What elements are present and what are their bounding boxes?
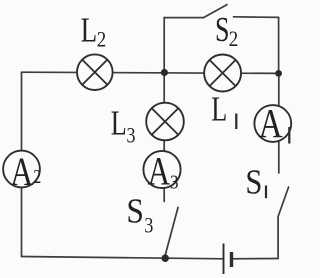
svg-text:2: 2 — [97, 27, 107, 52]
wire: bottom horizontal (right of battery) — [232, 258, 279, 260]
lamp L2 — [77, 54, 113, 90]
wire: junction up to top rail — [163, 18, 165, 73]
svg-text:3: 3 — [144, 212, 153, 237]
wire: main top horizontal — [22, 72, 279, 73]
wire: middle branch vertical (junction to S3 contact) — [163, 72, 165, 201]
svg-text:3: 3 — [170, 172, 179, 194]
lamp L1 — [204, 55, 241, 92]
svg-text:L: L — [111, 104, 127, 143]
ammeter A1 — [254, 100, 291, 146]
svg-text:3: 3 — [127, 123, 136, 148]
label L2 — [81, 10, 107, 51]
node C (junction dot, bottom) — [161, 254, 169, 262]
svg-text:L: L — [81, 10, 98, 49]
svg-text:L: L — [211, 90, 227, 129]
switch S2 blade — [203, 5, 227, 18]
wire: right vertical down to node B — [278, 17, 280, 73]
switch S3 blade — [165, 208, 178, 257]
ammeter A2 — [3, 149, 41, 194]
switch S1 blade — [278, 187, 289, 217]
svg-text:S: S — [215, 10, 230, 49]
battery BT1 (long plate, positive) — [223, 244, 225, 275]
wire: node B down through A1 to S1 contact — [278, 73, 280, 173]
label S2 — [215, 10, 238, 51]
svg-text:A: A — [10, 149, 33, 194]
svg-text:A: A — [148, 149, 171, 194]
svg-text:S: S — [245, 163, 262, 202]
wire: bottom horizontal (left of battery) — [22, 257, 224, 259]
wire: top rail right segment — [234, 16, 279, 19]
battery BT1 (short plate, negative) — [230, 252, 233, 267]
svg-text:2: 2 — [33, 166, 41, 188]
label L1 — [211, 90, 236, 129]
svg-text:2: 2 — [229, 26, 239, 51]
label S1 — [245, 163, 266, 202]
lamp L3 — [146, 103, 184, 141]
wire: left vertical branch — [21, 72, 23, 256]
label S3 — [126, 191, 153, 237]
node B (junction dot, top right) — [275, 70, 282, 77]
wire: top rail left segment — [164, 17, 203, 19]
svg-text:S: S — [126, 191, 143, 230]
label L3 — [111, 104, 136, 148]
svg-text:A: A — [259, 100, 283, 146]
node A (junction dot, top middle) — [161, 69, 168, 76]
wire: S1 lower pivot down to bottom rail — [277, 217, 279, 259]
ammeter A3 — [143, 149, 180, 194]
